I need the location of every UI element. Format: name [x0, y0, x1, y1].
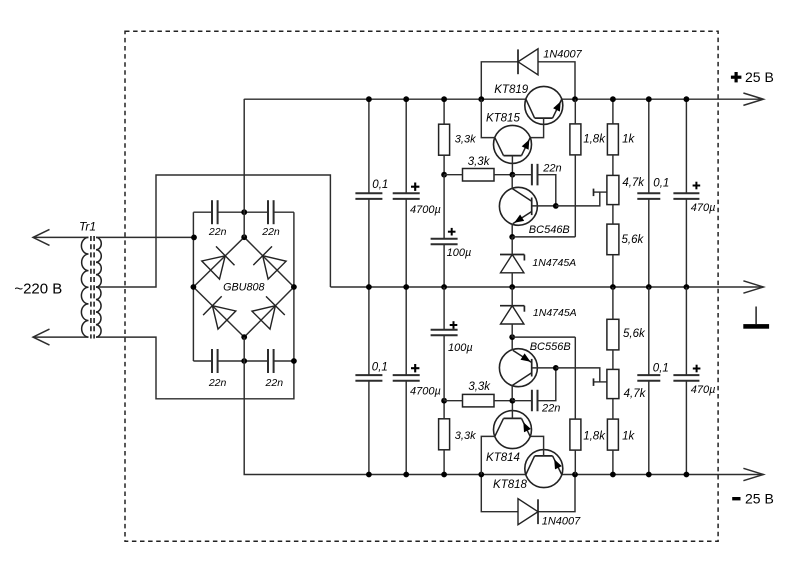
- capacitor 470µ bottom: [673, 374, 699, 376]
- wire 3,3k horizontal bottom leads: [444, 400, 462, 402]
- node divider top mid rail: [610, 284, 616, 290]
- wire 22n top left lead: [512, 174, 532, 176]
- resistor R 5,6k top: [607, 224, 619, 255]
- wire 3,3k vertical top leads: [443, 99, 445, 124]
- resistor R 3,3k vertical bottom: [439, 419, 450, 450]
- wire AC input top: [34, 236, 89, 238]
- AC input arrow bottom: [33, 329, 50, 345]
- arrow +25V output: [743, 93, 763, 105]
- node 0,1 mid rail: [366, 284, 372, 290]
- node bridge AC left: [191, 284, 197, 290]
- svg-text:22n: 22n: [541, 403, 560, 415]
- capacitor 0,1 top-left: [355, 192, 382, 194]
- capacitor 22n bottom-left: [211, 349, 213, 373]
- svg-text:3,3k: 3,3k: [468, 156, 491, 168]
- node 3,3k top rail: [441, 96, 447, 102]
- svg-text:Tr1: Tr1: [79, 219, 96, 233]
- wire 1,8k bottom leads: [574, 450, 576, 474]
- wire 100µ top leads: [443, 175, 445, 239]
- node KT814 base: [510, 398, 516, 404]
- wire 3,3k horizontal top leads: [444, 174, 462, 176]
- wire 470µ bottom leads: [685, 287, 687, 375]
- wire BC546B emitter lead: [511, 224, 513, 237]
- node 0,1 bottom-right rail: [646, 472, 652, 478]
- svg-text:0,1: 0,1: [372, 179, 388, 191]
- node bridge bottom edge junction: [241, 358, 247, 364]
- node 3,3k bottom rail: [441, 472, 447, 478]
- svg-text:5,6k: 5,6k: [623, 328, 646, 340]
- AC input arrow top: [33, 229, 50, 245]
- ground symbol: [755, 307, 757, 325]
- svg-text:KT815: KT815: [486, 113, 520, 125]
- node 1k top rail: [610, 96, 616, 102]
- wire KT814 base lead: [511, 401, 513, 419]
- wire BC546B collector lead: [511, 175, 513, 189]
- bridge box left edge: [192, 212, 194, 361]
- svg-text:~220 В: ~220 В: [14, 281, 62, 298]
- capacitor 22n top: [531, 164, 533, 186]
- diode bridge upper-left: [202, 256, 225, 279]
- svg-text:BC546B: BC546B: [529, 224, 570, 236]
- wire 1N4007 bottom branch right: [538, 475, 575, 512]
- svg-text:470µ: 470µ: [691, 384, 716, 396]
- svg-text:3,3k: 3,3k: [455, 430, 476, 442]
- wire 0,1 top-right leads: [648, 99, 650, 193]
- label 100µ bottom plus: [450, 324, 458, 326]
- capacitor 22n bottom-right: [267, 349, 269, 373]
- wire 100µ bottom leads: [443, 287, 445, 330]
- capacitor 4700µ bottom: [393, 374, 420, 376]
- wire BC556B collector lead: [511, 386, 513, 401]
- node 470µ top rail: [684, 96, 690, 102]
- node transformer to bridge: [191, 235, 197, 241]
- wire KT815 collector to raw rail: [481, 99, 495, 137]
- wire 4700µ top leads: [405, 99, 407, 193]
- transistor BC546B circle: [499, 187, 537, 225]
- svg-text:1k: 1k: [622, 134, 635, 146]
- label +25V: [731, 69, 774, 85]
- transistor KT819 internals: [535, 117, 553, 119]
- node 0,1 right mid rail: [646, 284, 652, 290]
- svg-text:22n: 22n: [542, 163, 561, 175]
- svg-text:22n: 22n: [265, 377, 284, 389]
- wire +25V rail right section: [562, 98, 763, 100]
- node bridge AC right: [291, 284, 297, 290]
- node BC546B emitter: [509, 234, 515, 240]
- svg-text:0,1: 0,1: [653, 362, 669, 374]
- svg-text:4700µ: 4700µ: [410, 385, 441, 397]
- node 0,1 top-right rail: [646, 96, 652, 102]
- svg-text:3,3k: 3,3k: [455, 133, 476, 145]
- diode 1N4007 bottom: [518, 499, 538, 525]
- transistor BC556B internals: [531, 359, 533, 377]
- wire BC546B emitter to 1,8k: [512, 236, 575, 238]
- diode bridge lower-left: [212, 306, 235, 329]
- resistor R 1k top: [607, 124, 618, 155]
- bridge box bottom edge: [193, 360, 212, 362]
- wire 0,1 bottom-left leads: [368, 287, 370, 375]
- capacitor 22n top-left: [211, 200, 213, 224]
- transformer Tr1 secondary winding upper: [96, 237, 101, 287]
- svg-text:1N4007: 1N4007: [542, 516, 581, 528]
- node 1N4007 bottom right: [572, 472, 578, 478]
- svg-text:1,8k: 1,8k: [583, 431, 606, 443]
- bridge diamond: [193, 237, 294, 337]
- svg-text:22n: 22n: [208, 377, 227, 389]
- arrow -25V output: [743, 468, 763, 480]
- zener 1N4745A top: [500, 254, 524, 256]
- node bridge top edge junction: [241, 209, 247, 215]
- resistor R 3,3k horizontal top: [463, 169, 495, 182]
- label 4700µ bottom plus: [411, 367, 419, 369]
- svg-text:22n: 22n: [208, 226, 227, 238]
- transistor KT818 internals: [535, 455, 553, 457]
- wire 0,1 bottom-right leads: [648, 287, 650, 375]
- wire BC546B base to trimmer wiper: [556, 192, 600, 206]
- transformer Tr1 secondary winding lower: [96, 287, 101, 337]
- node BC556B emitter: [509, 334, 515, 340]
- transistor BC556B circle: [499, 349, 537, 387]
- svg-text:1,8k: 1,8k: [583, 134, 606, 146]
- wire KT819 base to KT815 emitter: [530, 118, 543, 138]
- svg-text:0,1: 0,1: [372, 362, 388, 374]
- wire BC556B emitter lead: [511, 337, 513, 350]
- svg-text:22n: 22n: [261, 226, 280, 238]
- transistor KT818 circle: [525, 450, 563, 488]
- resistor R 1k bottom: [607, 419, 618, 450]
- svg-text:5,6k: 5,6k: [622, 234, 645, 246]
- node 1N4007 bottom left: [478, 472, 484, 478]
- wire +25V rail left section: [244, 99, 526, 237]
- svg-text:25 В: 25 В: [745, 69, 774, 85]
- wire 3,3k vertical bottom leads: [443, 450, 445, 475]
- label 470µ top plus: [693, 185, 701, 187]
- transistor BC546B internals: [531, 198, 533, 216]
- wire 1,8k top leads: [574, 99, 576, 124]
- wire secondary center tap to 0V rail: [96, 175, 330, 287]
- svg-text:KT814: KT814: [486, 452, 520, 464]
- capacitor 100µ bottom: [431, 329, 458, 331]
- svg-text:KT818: KT818: [493, 479, 527, 491]
- node 1N4007 top left: [478, 96, 484, 102]
- transformer Tr1 core: [90, 236, 92, 339]
- svg-text:25 В: 25 В: [745, 490, 774, 506]
- node 100µ top mid rail: [441, 284, 447, 290]
- label 470µ bottom plus: [693, 368, 701, 370]
- wire 22n top right lead: [538, 175, 556, 206]
- node 470µ mid rail: [684, 284, 690, 290]
- zener 1N4745A bottom: [500, 305, 524, 307]
- wire 1N4007 bottom branch left: [481, 475, 518, 512]
- wire 4,7k-5,6k bottom leads: [612, 350, 614, 370]
- wire KT818 base to KT814 emitter: [530, 436, 543, 456]
- label -25V: [732, 490, 774, 506]
- capacitor 22n top-right: [267, 200, 269, 224]
- capacitor 0,1 bottom-left: [355, 374, 382, 376]
- transistor KT819 circle: [525, 86, 563, 124]
- wire BC546B base lead: [532, 205, 556, 207]
- diode bridge lower-right: [252, 306, 275, 329]
- svg-text:1N4007: 1N4007: [543, 49, 582, 61]
- wire 22n bottom right lead: [538, 368, 556, 401]
- svg-text:KT819: KT819: [494, 84, 528, 96]
- node bridge minus: [241, 334, 247, 340]
- resistor R 5,6k bottom: [607, 319, 619, 350]
- svg-text:1N4745A: 1N4745A: [533, 307, 577, 319]
- resistor R 3,3k vertical top: [439, 124, 450, 155]
- wire BC556B base lead: [532, 367, 556, 369]
- resistor R 1,8k top: [570, 124, 581, 155]
- node 3,3k/100µ junction bottom: [441, 398, 447, 404]
- node 3,3k/100µ junction top: [441, 172, 447, 178]
- svg-text:3,3k: 3,3k: [468, 381, 491, 393]
- wire 0,1 top-left leads: [368, 99, 370, 193]
- wire AC input bottom: [34, 336, 89, 338]
- arrow 0V output: [743, 281, 763, 293]
- bridge box top edge: [193, 211, 212, 213]
- label 4700µ top plus: [411, 186, 419, 188]
- transistor KT815 internals: [504, 155, 522, 157]
- transistor KT814 circle: [494, 411, 532, 449]
- resistor R 1,8k bottom: [570, 419, 581, 450]
- wire 22n bottom left lead: [512, 400, 532, 402]
- svg-text:100µ: 100µ: [447, 247, 472, 259]
- svg-text:4,7k: 4,7k: [622, 177, 645, 189]
- node 4700µ bottom rail: [403, 472, 409, 478]
- svg-text:0,1: 0,1: [653, 178, 669, 190]
- node BC546B base: [553, 203, 559, 209]
- wire 1N4007 top branch left: [481, 62, 518, 99]
- node BC556B base: [553, 365, 559, 371]
- node zener top mid rail: [509, 284, 515, 290]
- diode 1N4007 top: [518, 49, 538, 75]
- wire -25V rail right section: [562, 474, 763, 476]
- svg-text:1N4745A: 1N4745A: [532, 257, 576, 269]
- svg-text:BC556B: BC556B: [530, 341, 571, 353]
- node 1k bottom rail: [610, 472, 616, 478]
- wire zener bottom leads: [511, 287, 513, 306]
- transformer Tr1 primary winding: [81, 237, 88, 337]
- transistor KT814 internals: [504, 417, 522, 419]
- resistor R 3,3k horizontal bottom: [463, 394, 495, 407]
- trimmer R 4,7k top: [607, 175, 619, 204]
- wire 4,7k-5,6k top leads: [612, 205, 614, 225]
- node 1N4007 top right: [572, 96, 578, 102]
- svg-text:1k: 1k: [622, 431, 635, 443]
- wire -25V rail left section: [244, 337, 526, 474]
- wire BC556B emitter to 1,8k: [512, 336, 575, 338]
- capacitor 4700µ top: [393, 192, 420, 194]
- wire 1N4007 top branch right: [538, 62, 575, 99]
- node 4700µ mid rail: [403, 284, 409, 290]
- trimmer R 4,7k bottom: [607, 369, 619, 398]
- wire secondary bottom to bridge right edge: [96, 337, 294, 399]
- node bridge plus: [241, 234, 247, 240]
- trimmer wiper top: [594, 191, 607, 193]
- svg-text:4700µ: 4700µ: [410, 204, 441, 216]
- svg-text:4,7k: 4,7k: [624, 388, 647, 400]
- bridge box right edge: [293, 212, 295, 361]
- trimmer wiper bottom: [594, 381, 607, 383]
- transistor KT815 circle: [494, 125, 532, 163]
- capacitor 22n bottom: [531, 390, 533, 412]
- wire KT815 base lead: [511, 156, 513, 175]
- node KT815 base: [510, 172, 516, 178]
- node 0,1 bottom rail: [366, 472, 372, 478]
- wire secondary top to bridge left edge: [96, 236, 194, 238]
- wire KT814 collector to raw rail: [481, 436, 495, 474]
- svg-text:100µ: 100µ: [448, 342, 473, 354]
- wire 0V rail: [330, 286, 763, 288]
- wire BC556B base to trimmer wiper: [556, 368, 600, 382]
- wire zener top leads: [511, 237, 513, 255]
- wire 470µ top leads: [685, 99, 687, 193]
- node 4700µ top rail: [403, 96, 409, 102]
- node 470µ bottom rail: [684, 472, 690, 478]
- wire 1k top leads: [612, 99, 614, 124]
- label 100µ top plus: [448, 231, 456, 233]
- diode bridge upper-right: [263, 256, 286, 279]
- wire 1k bottom leads: [612, 450, 614, 474]
- capacitor 470µ top: [673, 192, 699, 194]
- capacitor 0,1 top-right: [637, 192, 660, 194]
- wire 4700µ bottom leads: [405, 287, 407, 375]
- capacitor 100µ top: [431, 238, 458, 240]
- enclosure dashed border: [125, 31, 718, 541]
- node 0,1 top-left rail: [366, 96, 372, 102]
- capacitor 0,1 bottom-right: [637, 374, 660, 376]
- svg-text:GBU808: GBU808: [223, 282, 264, 294]
- svg-text:470µ: 470µ: [691, 202, 716, 214]
- node bridge bottom-right corner: [291, 358, 297, 364]
